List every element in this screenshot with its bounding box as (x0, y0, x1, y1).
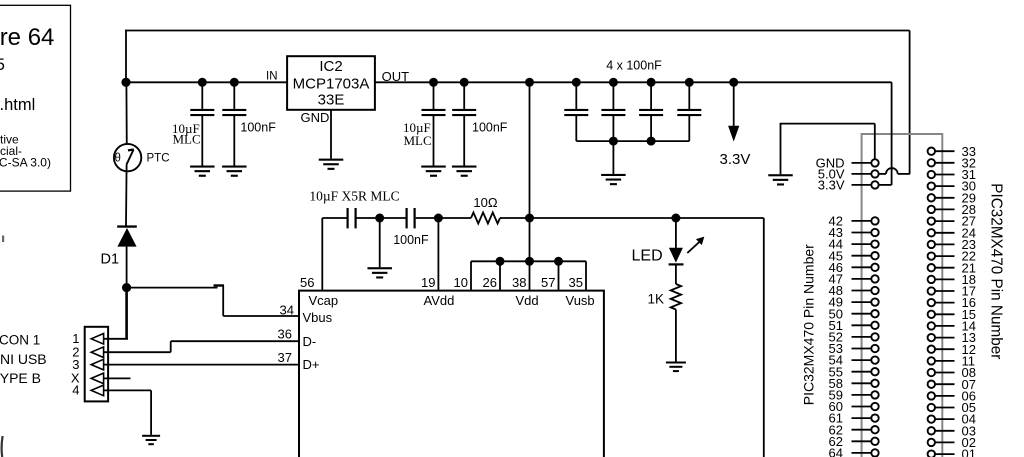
capacitor 100nF output (463, 82, 465, 109)
ground input 100nF (222, 166, 247, 168)
node D1 junction (122, 283, 131, 292)
op-amp IC2 MCP1703A regulator box (287, 56, 375, 110)
svg-text:100nF: 100nF (393, 233, 429, 247)
wire 3.3V arrow (733, 82, 735, 128)
node header right pin 22 (928, 252, 935, 259)
wire cap to cap (357, 217, 406, 219)
wire right branch drop (763, 218, 765, 457)
ground LED (666, 362, 686, 364)
svg-text:PIC32MX470 Pin Number: PIC32MX470 Pin Number (801, 244, 817, 405)
node header right pin 24 (928, 229, 935, 236)
thermistor PTC (114, 144, 141, 171)
stray edge mark (2, 436, 3, 457)
capacitor 10uF MLC input (201, 82, 203, 109)
node Vdd bus junction 38 (525, 257, 534, 266)
node Vcap ground junction (375, 214, 384, 223)
wire 5V top rail (125, 30, 910, 32)
node AVdd junction (434, 214, 443, 223)
svg-text:(CC BY-NC-SA 3.0): (CC BY-NC-SA 3.0) (0, 156, 51, 170)
wire cap to resistor (416, 217, 471, 219)
wire USB pinX stub (104, 377, 131, 379)
node header right pin 04 (928, 415, 935, 422)
svg-text:3.3V: 3.3V (818, 178, 845, 193)
svg-text:θ: θ (115, 153, 121, 165)
capacitor 10uF X5R MLC (347, 208, 349, 228)
node header right pin 32 (928, 159, 935, 166)
resistor 10R (471, 213, 500, 224)
svg-text:IN: IN (266, 70, 278, 82)
node header right pin 23 (928, 241, 935, 248)
wire header 5.0V trace with hop (879, 173, 886, 175)
svg-text:33E: 33E (318, 91, 345, 108)
capacitor bank 100nF #2 (612, 82, 614, 109)
wire USB pin2 to D- (104, 351, 171, 353)
wire USB pin3 to D+ (104, 364, 299, 366)
svg-text:3: 3 (72, 357, 79, 372)
svg-text:CON 1: CON 1 (0, 333, 40, 348)
svg-text:38: 38 (512, 275, 526, 290)
wire USB pin4 to ground (104, 389, 152, 391)
svg-text:.html: .html (0, 96, 35, 114)
node header right pin 01 (928, 450, 935, 457)
capacitor 10uF MLC output (433, 82, 435, 109)
wire Vdd bus (471, 260, 586, 262)
svg-text:64: 64 (829, 446, 843, 457)
wire header GND trace (780, 123, 875, 125)
wire 5V top right drop (909, 31, 911, 175)
pin 26 Vdd group (499, 261, 501, 290)
node header right pin 31 (928, 171, 935, 178)
wire Vdd branch riser (529, 82, 531, 261)
svg-text:D+: D+ (303, 357, 320, 372)
svg-text:1K: 1K (647, 292, 664, 307)
svg-text:AVdd: AVdd (424, 293, 455, 308)
pin 2 CON1 (91, 347, 103, 358)
capacitor 100nF Vcap (406, 208, 408, 228)
svg-text:34: 34 (280, 302, 294, 317)
capacitor bank 100nF #4 (688, 82, 690, 109)
node header right pin 15 (928, 311, 935, 318)
svg-text:PTC: PTC (147, 152, 170, 164)
svg-text:10µF X5R MLC: 10µF X5R MLC (309, 189, 399, 204)
wire D1 to junction (126, 247, 128, 288)
capacitor 100nF input (233, 82, 235, 109)
wire capacitor bank bottom bus (576, 140, 689, 142)
node bank bus junction 1 (609, 137, 618, 146)
diode D1 (117, 225, 137, 227)
svg-text:MLC: MLC (404, 133, 432, 148)
node bank bus junction 2 (647, 137, 656, 146)
node LED junction (671, 214, 680, 223)
svg-text:Vusb: Vusb (566, 293, 595, 308)
ground Vcap filter (367, 267, 392, 269)
svg-text:LED: LED (632, 248, 663, 265)
svg-text:36: 36 (278, 326, 292, 341)
node header right pin 02 (928, 439, 935, 446)
pin 3 CON1 (91, 359, 103, 370)
pin 4 CON1 (91, 385, 103, 396)
svg-text:26: 26 (483, 275, 497, 290)
pin X CON1 (91, 373, 103, 384)
node header right pin 17 (928, 287, 935, 294)
wire input 5V rail (126, 81, 287, 83)
wire bank ground drop (612, 141, 614, 174)
capacitor bank 100nF #1 (575, 82, 577, 109)
ground IC2 (319, 159, 344, 161)
wire PTC to D1 (125, 164, 128, 225)
wire junction to USB pin1 (thick) (125, 288, 128, 340)
svg-text:5: 5 (0, 55, 5, 74)
ground output 100nF (452, 166, 477, 168)
ground USB shell (142, 435, 160, 437)
resistor 1K (671, 284, 681, 310)
svg-text:10: 10 (454, 275, 468, 290)
node Vdd bus junction 57 (554, 257, 563, 266)
pin 1 CON1 (91, 334, 103, 345)
svg-text:57: 57 (541, 275, 555, 290)
node 3.3V arrow junction (729, 78, 738, 87)
node header right pin 14 (928, 322, 935, 329)
node input junction (121, 78, 130, 87)
node header right pin 13 (928, 334, 935, 341)
wire junction to Vbus jog (127, 287, 218, 289)
ground header GND (780, 124, 782, 175)
svg-text:Vdd: Vdd (516, 293, 539, 308)
svg-text:4 x 100nF: 4 x 100nF (606, 59, 662, 73)
svg-text:35: 35 (569, 275, 583, 290)
ground capacitor bank (601, 174, 626, 176)
node header right pin 03 (928, 427, 935, 434)
pin 35 Vdd group (585, 261, 587, 290)
svg-text:D-: D- (303, 334, 317, 349)
svg-text:Figure 64: Figure 64 (0, 24, 54, 51)
wire AVdd drop (437, 218, 439, 291)
wire resistor to ground (675, 310, 677, 362)
svg-text:01: 01 (962, 447, 976, 457)
svg-text:3.3V: 3.3V (720, 151, 751, 168)
node header right pin 33 (928, 148, 935, 155)
svg-text:4: 4 (72, 383, 79, 398)
node header right pin 18 (928, 276, 935, 283)
svg-text:D1: D1 (101, 252, 120, 268)
node header right pin 05 (928, 404, 935, 411)
svg-text:IC2: IC2 (319, 58, 342, 75)
svg-text:MINI USB: MINI USB (0, 351, 47, 367)
node header right pin 27 (928, 217, 935, 224)
node Vdd branch junction (525, 214, 534, 223)
op-amp U1 PIC32 MCU box (299, 291, 604, 457)
connector CON1 mini USB box (85, 327, 108, 402)
wire IC2 GND (330, 110, 332, 159)
ground output 10uF (421, 166, 446, 168)
wire Vcap ground drop (379, 218, 381, 267)
node header right pin 07 (928, 381, 935, 388)
node Vdd bus junction 26 (496, 257, 505, 266)
wire node to PTC (125, 82, 127, 150)
svg-text:GND: GND (301, 110, 330, 125)
svg-text:100nF: 100nF (240, 121, 276, 135)
svg-text:56: 56 (300, 275, 314, 290)
wire USB pin1 to 5V chain (104, 338, 128, 340)
node header right pin 30 (928, 182, 935, 189)
node header right pin 16 (928, 299, 935, 306)
node header right pin 29 (928, 194, 935, 201)
node header right pin 11 (928, 357, 935, 364)
pin 57 Vdd group (558, 261, 560, 290)
wire resistor to Vdd node (500, 217, 530, 219)
pin 38 Vdd group (529, 261, 531, 290)
wire 5V top left drop (125, 30, 127, 83)
title block frame (0, 5, 71, 191)
LED diode (675, 218, 677, 248)
wire LED to resistor (675, 266, 677, 285)
node header right pin 21 (928, 264, 935, 271)
ground input 10uF (190, 166, 215, 168)
svg-text:TYPE B: TYPE B (0, 370, 41, 386)
capacitor bank 100nF #3 (650, 82, 652, 109)
node header right pin 28 (928, 206, 935, 213)
svg-text:10Ω: 10Ω (473, 195, 497, 210)
wire header 3.3V trace (891, 82, 893, 185)
svg-text:Vcap: Vcap (309, 293, 339, 308)
wire Vcap pin riser (321, 218, 323, 291)
svg-text:PIC32MX470 Pin Number: PIC32MX470 Pin Number (988, 183, 1005, 359)
node header right pin 08 (928, 369, 935, 376)
svg-text:19: 19 (421, 275, 435, 290)
wire 3.3V output rail (375, 81, 892, 83)
svg-text:MLC: MLC (173, 132, 201, 147)
svg-text:MCP1703A: MCP1703A (293, 75, 370, 92)
node header right pin 12 (928, 346, 935, 353)
svg-text:100nF: 100nF (472, 121, 508, 135)
node header right pin 06 (928, 392, 935, 399)
LED arrow (687, 242, 699, 253)
wire Vdd node to right branch (530, 217, 764, 219)
pin 10 Vdd group (470, 261, 472, 290)
svg-text:37: 37 (278, 350, 292, 365)
node 3.3V arrowhead (728, 126, 739, 142)
header grey outline box (862, 134, 943, 457)
svg-text:Vbus: Vbus (303, 310, 333, 325)
